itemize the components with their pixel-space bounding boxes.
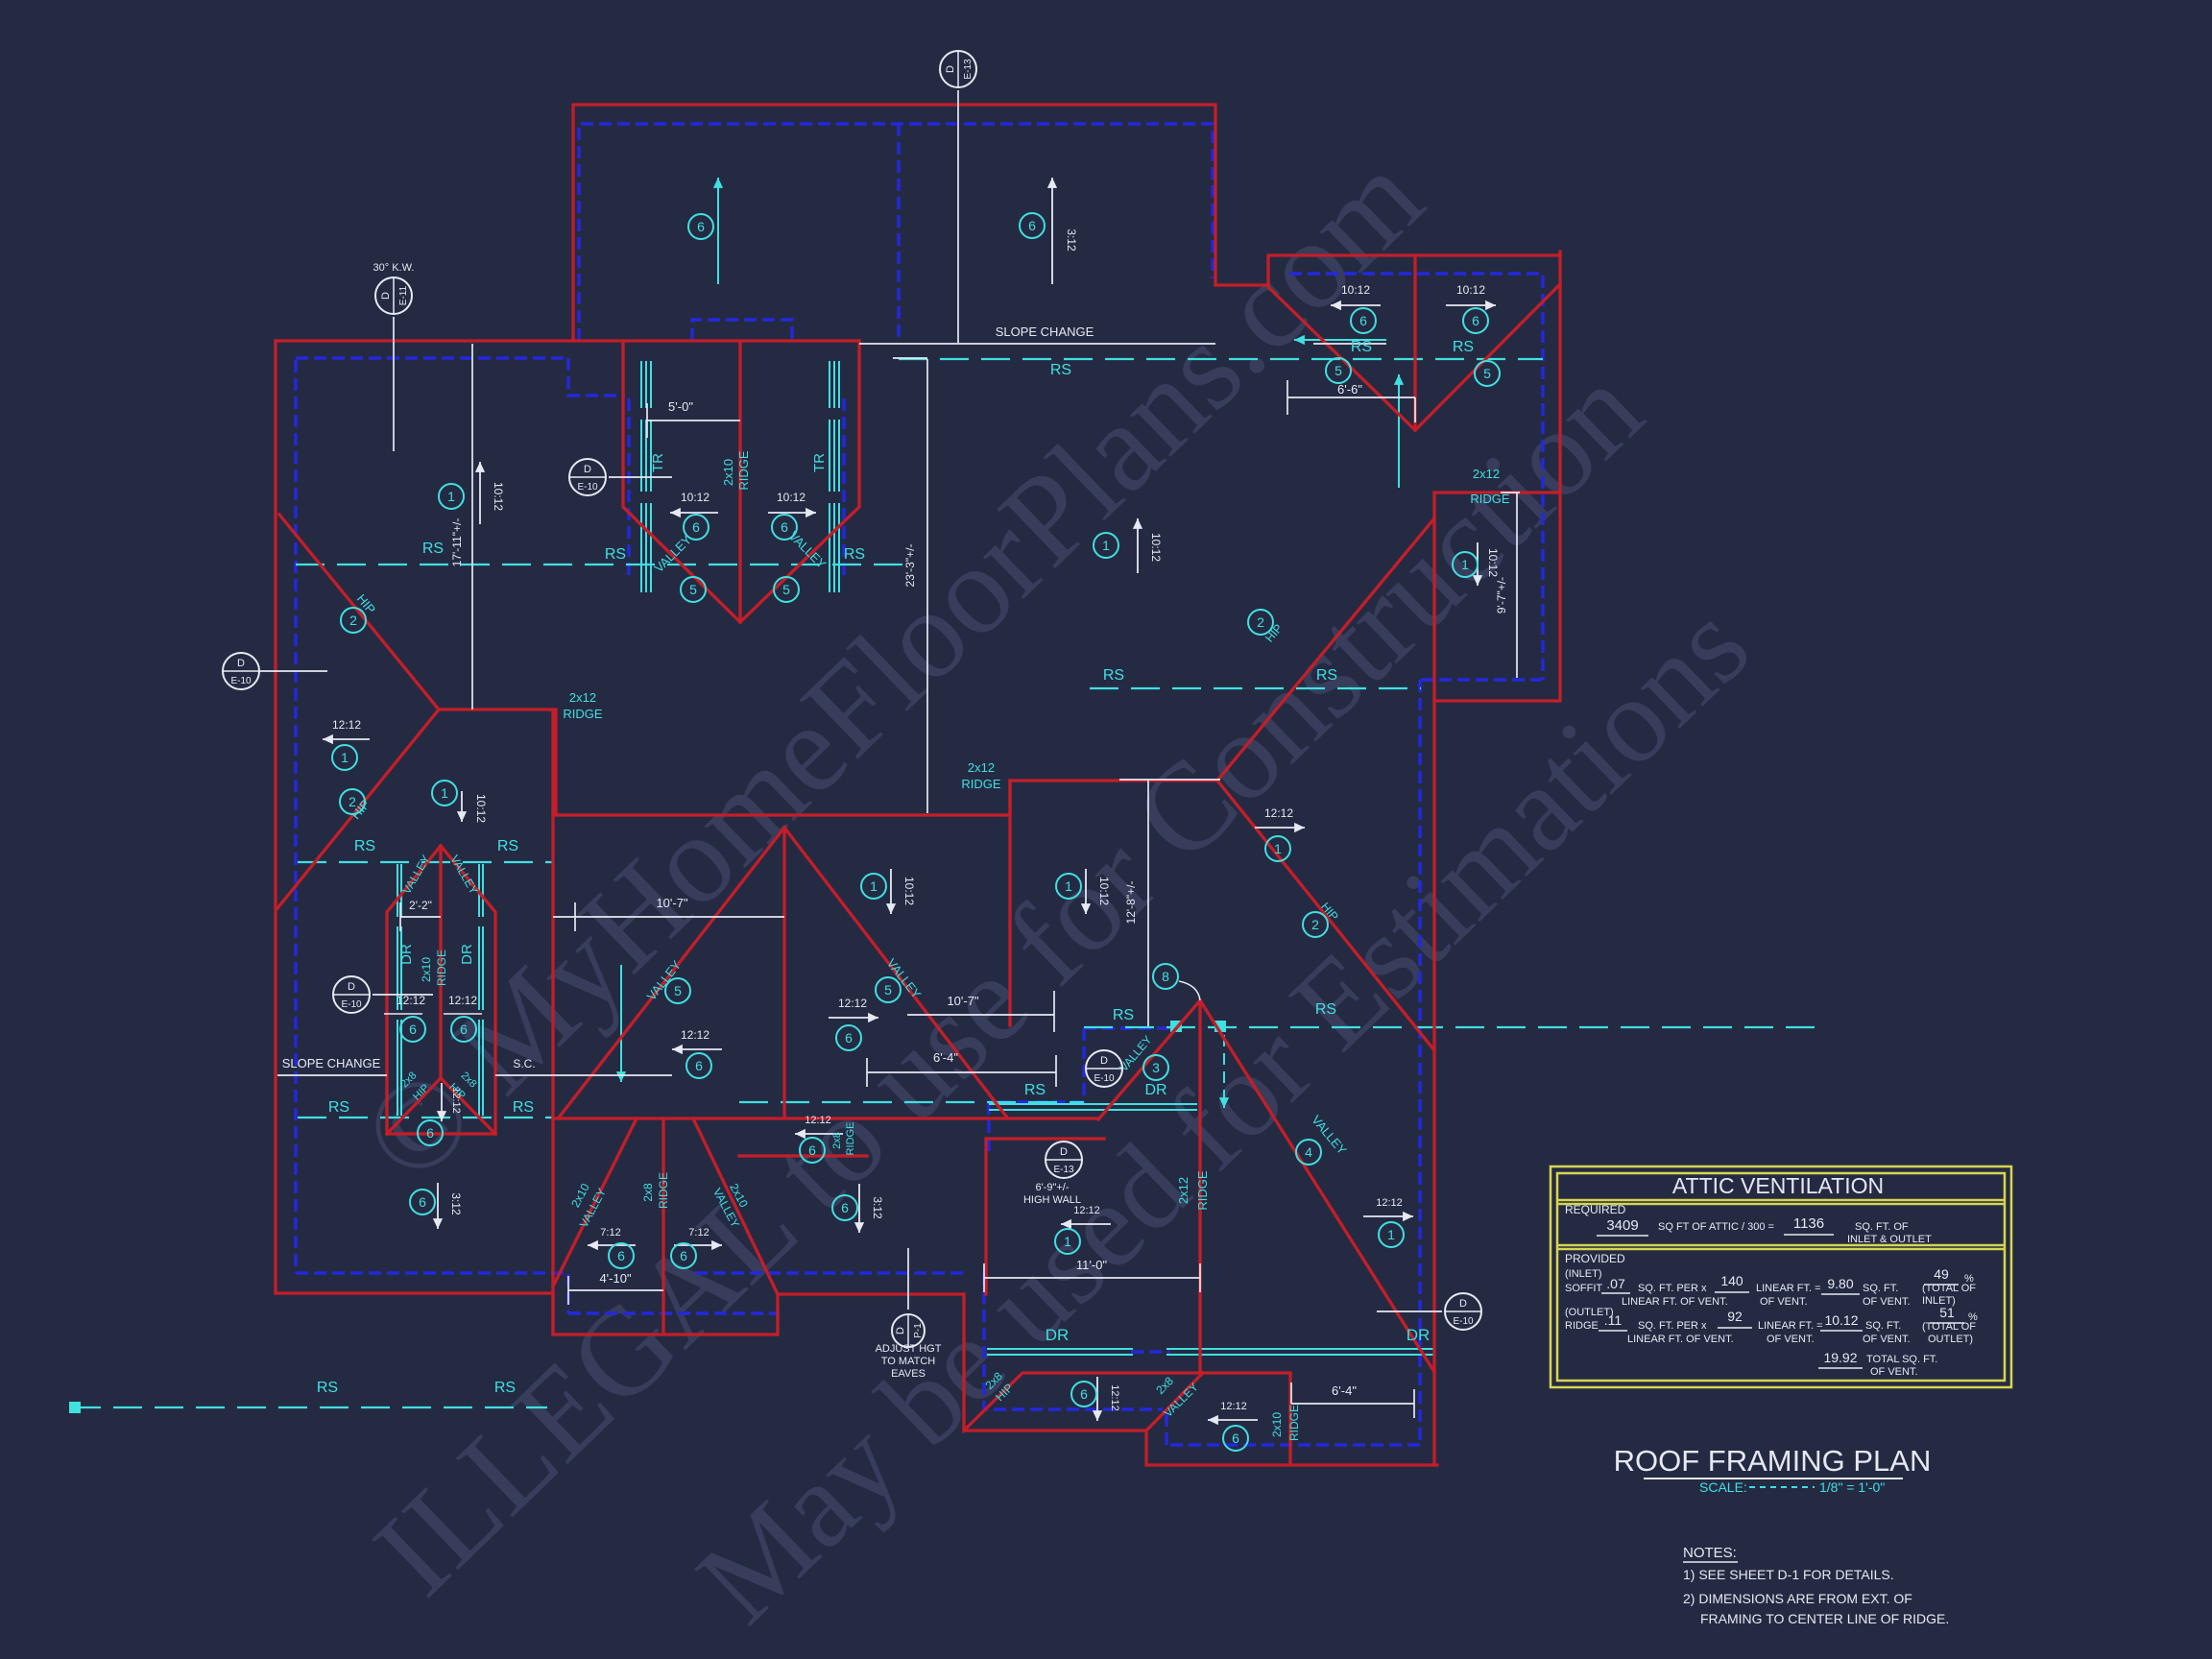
svg-text:LINEAR FT. OF VENT.: LINEAR FT. OF VENT. [1622,1296,1728,1308]
roof mid vertical [1008,781,1011,1025]
svg-text:OUTLET): OUTLET) [1928,1334,1973,1345]
svg-text:(INLET): (INLET) [1565,1268,1602,1280]
svg-text:.11: .11 [1604,1312,1623,1328]
svg-text:2) DIMENSIONS ARE FROM EXT. O: 2) DIMENSIONS ARE FROM EXT. OF [1683,1591,1912,1606]
roof center block right edge [551,709,554,1334]
svg-text:RIDGE: RIDGE [1470,492,1510,506]
svg-text:TO MATCH: TO MATCH [881,1356,935,1367]
wall right rect [1131,680,1542,1352]
svg-text:6: 6 [841,1200,849,1215]
label circle 6 [451,1017,476,1042]
svg-text:1: 1 [1461,557,1469,572]
roof high wall [986,1139,1104,1294]
svg-text:RIDGE: RIDGE [1287,1405,1301,1441]
svg-text:4: 4 [1305,1144,1312,1160]
svg-text:RS: RS [1315,1001,1336,1018]
roof trapezoid ridge [661,1118,664,1334]
svg-text:10:12: 10:12 [1486,548,1500,577]
roof center triangle [559,828,1007,1118]
svg-text:10:12: 10:12 [1456,283,1485,297]
svg-text:3:12: 3:12 [871,1196,884,1219]
label circle 5 [876,977,901,1002]
slope change line left [277,1074,387,1076]
svg-text:5: 5 [689,582,697,597]
svg-text:1: 1 [1064,1234,1071,1249]
label circle 5 [1326,358,1351,383]
label circle 2 [1303,912,1328,937]
roof left ridge 2x12 [439,709,556,815]
roof step bottom-left [553,1293,1290,1431]
svg-text:RS: RS [513,1099,534,1116]
svg-text:10:12: 10:12 [474,794,488,823]
roof top-right wing valleys [1269,284,1560,430]
cyan arrow top-right wing up [1398,374,1400,488]
label circle 6 [1463,308,1488,333]
detail marker D/E-13 [1046,1142,1082,1178]
svg-text:19.92: 19.92 [1823,1350,1857,1365]
svg-text:12:12: 12:12 [1264,806,1293,820]
svg-text:6: 6 [1232,1431,1239,1446]
watermark line 1 [334,126,1774,1648]
roof ridge strip [739,1154,867,1157]
svg-text:10.12: 10.12 [1824,1312,1858,1328]
svg-text:5'-0": 5'-0" [668,399,693,414]
svg-text:RS: RS [1024,1082,1046,1098]
cyan arrow top-left rect [717,178,719,284]
svg-text:SOFFIT: SOFFIT [1565,1283,1602,1294]
svg-text:.07: .07 [1606,1276,1625,1291]
roof bottom tower outline [387,846,495,1134]
label circle 6 [684,515,709,540]
svg-text:11'-0": 11'-0" [1076,1258,1108,1272]
svg-text:D: D [1060,1146,1068,1158]
pitch arrow mid-right 10:12 up [1137,518,1139,573]
dim 10-7 B [907,991,1054,1032]
svg-text:ROOF FRAMING PLAN: ROOF FRAMING PLAN [1614,1444,1932,1478]
RS line left lower [298,1117,552,1118]
svg-text:1) SEE SHEET D-1 FOR DETAILS.: 1) SEE SHEET D-1 FOR DETAILS. [1683,1567,1894,1582]
svg-text:23'-3"+/-: 23'-3"+/- [903,544,917,588]
label circle 4 [1296,1140,1321,1165]
svg-text:3:12: 3:12 [1065,228,1078,252]
svg-text:10:12: 10:12 [492,482,505,511]
svg-text:TR: TR [811,453,828,472]
pitch arrow right rect 10:12 down [1477,542,1479,586]
svg-text:ATTIC VENTILATION: ATTIC VENTILATION [1672,1173,1884,1198]
svg-text:SCALE:: SCALE: [1699,1479,1747,1495]
svg-text:OF VENT.: OF VENT. [1863,1296,1911,1308]
svg-text:D: D [1100,1055,1108,1067]
cyan node square RS bottom-left [69,1402,81,1413]
roof center base line [553,1117,1098,1119]
label circle 6 [832,1195,857,1220]
slope change white right of cyan arrow [1313,343,1386,345]
pitch arrow center 3:12 down [858,1184,860,1233]
svg-text:12:12: 12:12 [397,994,425,1007]
svg-text:OF VENT.: OF VENT. [1760,1296,1808,1308]
detail marker D/E-10 [569,459,606,495]
svg-text:RIDGE: RIDGE [736,450,751,491]
svg-text:3409: 3409 [1606,1217,1638,1234]
svg-text:E-11: E-11 [398,285,409,305]
RS line mid-right [1090,687,1421,689]
label circle 5 [665,978,690,1003]
svg-text:2x8: 2x8 [641,1183,655,1202]
svg-text:RIDGE: RIDGE [961,777,1001,791]
leader D E-10 midleft [373,994,433,996]
label circle 1 [1056,874,1081,899]
svg-text:SQ. FT. OF: SQ. FT. OF [1855,1221,1909,1233]
roof trapezoid right valley [693,1118,778,1294]
svg-text:12:12: 12:12 [838,997,867,1010]
dim 12-8 vertical [1119,780,1220,1026]
svg-text:RS: RS [844,546,865,563]
svg-text:6: 6 [419,1194,426,1210]
svg-text:SQ FT OF ATTIC / 300 =: SQ FT OF ATTIC / 300 = [1658,1221,1774,1233]
svg-text:E-10: E-10 [341,999,362,1010]
label circle 1 [1094,533,1118,558]
roof left hip lower [277,709,439,908]
svg-text:140: 140 [1720,1273,1743,1288]
pitch arrow left bottom 3:12 down [437,1183,439,1229]
svg-text:2: 2 [349,794,356,809]
svg-text:OF VENT.: OF VENT. [1863,1334,1911,1345]
dim 5-0 tower [647,403,740,438]
svg-text:1: 1 [1274,841,1282,856]
label circle 6 [1020,213,1045,238]
svg-text:P-1: P-1 [913,1323,924,1338]
detail marker D/E-10 [1086,1050,1122,1087]
label circle 1 [1265,836,1290,861]
dim 4-10 [568,1276,663,1305]
wall tower verticals [629,398,844,576]
roof left wing bottom edge [276,1291,553,1294]
svg-text:12:12: 12:12 [1220,1401,1247,1412]
svg-text:10:12: 10:12 [902,877,916,905]
label circle 6 [410,1190,435,1214]
svg-text:SQ. FT. PER x: SQ. FT. PER x [1638,1320,1707,1332]
label circle 6 [836,1025,861,1050]
svg-text:OF VENT.: OF VENT. [1767,1334,1815,1345]
label circle 6 [1223,1426,1248,1451]
slope change line right [495,1074,672,1076]
label circle 1 [1453,552,1478,577]
label circle 1 [439,484,464,509]
svg-text:12'-8"+/-: 12'-8"+/- [1124,881,1138,925]
label circle 1 [1379,1222,1404,1247]
label circle 1 [432,781,457,805]
cyan node square 1 [1170,1021,1182,1032]
wall bump above tower [692,320,792,341]
svg-text:1136: 1136 [1793,1215,1824,1232]
svg-text:6: 6 [680,1248,687,1263]
svg-text:5: 5 [782,582,790,597]
label circle 6 [772,515,797,540]
roof right edge [1432,493,1435,1465]
svg-text:TOTAL SQ. FT.: TOTAL SQ. FT. [1866,1354,1937,1365]
svg-text:RS: RS [1351,339,1372,355]
svg-text:12:12: 12:12 [448,994,477,1007]
svg-text:RS: RS [497,838,518,854]
svg-text:OF VENT.: OF VENT. [1870,1366,1918,1378]
detail marker D/E-10 [223,653,259,689]
roof bottom tower ridge [439,846,442,1078]
DR double lines bottom tower [397,864,398,1116]
svg-text:LINEAR FT. =: LINEAR FT. = [1758,1320,1823,1332]
detail marker D/P-1 [892,1314,925,1347]
svg-text:12:12: 12:12 [681,1028,709,1042]
svg-text:9'-7"+/-: 9'-7"+/- [1495,577,1508,613]
svg-text:10:12: 10:12 [777,491,805,504]
svg-text:TR: TR [650,453,666,472]
leader D E-10 tower [609,476,672,478]
svg-text:6'-4": 6'-4" [933,1050,958,1065]
svg-text:10:12: 10:12 [681,491,709,504]
svg-text:2x8: 2x8 [831,1132,843,1149]
svg-text:RS: RS [1316,667,1337,684]
label circle 8 [1153,964,1178,989]
svg-text:30° K.W.: 30° K.W. [373,262,415,274]
svg-text:6: 6 [1472,313,1479,328]
detail marker D/E-10 [1445,1293,1481,1330]
svg-text:INLET & OUTLET: INLET & OUTLET [1847,1234,1932,1245]
label circle 5 [1475,361,1500,386]
roof right mid rect [1434,252,1560,701]
dim 9-7 vertical [1501,493,1520,678]
svg-text:RS: RS [1113,1007,1134,1023]
svg-text:1: 1 [1387,1227,1395,1242]
pitch arrow left wing 12:12 left [323,738,370,740]
label circle 5 [681,577,706,602]
svg-text:6: 6 [617,1248,625,1263]
svg-text:2x10: 2x10 [1270,1412,1284,1437]
roof center-right gable ridge [1198,1000,1201,1373]
DR double line bottom [987,1349,1433,1355]
label circle 6 [1351,308,1376,333]
svg-text:2: 2 [349,613,357,628]
detail marker D/E-10 [333,976,370,1013]
svg-text:SQ. FT. PER x: SQ. FT. PER x [1638,1283,1707,1294]
dim 23-3 vertical [893,358,927,813]
svg-text:6'-6": 6'-6" [1337,382,1362,397]
leader D E-13 top [957,90,959,343]
svg-text:E-10: E-10 [230,676,252,686]
wall partition top rect [897,124,900,338]
dim 10-7 A [553,902,784,931]
svg-text:2x10: 2x10 [420,957,433,982]
dim 2-2 bottom tower [400,902,441,931]
svg-text:SLOPE CHANGE: SLOPE CHANGE [996,325,1094,339]
cyan node square 2 [1214,1021,1226,1032]
TR triple lines right [829,361,830,592]
svg-text:6: 6 [845,1030,853,1046]
dim 6-6 top-right [1287,380,1415,422]
svg-text:10:12: 10:12 [1097,877,1111,905]
svg-text:RIDGE: RIDGE [1195,1170,1210,1211]
roof left wing left edge [274,341,276,1293]
label circle 6 [686,1053,711,1078]
label circle 6 [800,1138,825,1163]
svg-text:5: 5 [1334,363,1342,378]
svg-text:RS: RS [317,1380,338,1396]
svg-text:PROVIDED: PROVIDED [1565,1252,1625,1265]
svg-text:SLOPE CHANGE: SLOPE CHANGE [282,1056,381,1070]
leader D E-10 left [258,670,327,672]
svg-text:D: D [237,658,245,669]
label circle 6 [609,1243,634,1268]
svg-text:10'-7": 10'-7" [947,994,979,1008]
svg-text:RS: RS [605,546,626,563]
leader from 8 [1179,981,1200,1000]
pitch arrow top rect right 3:12 [1051,178,1053,284]
svg-text:RS: RS [422,541,444,557]
wall bottom trapezoid [568,1311,778,1314]
RS line upper [899,358,1543,360]
svg-text:6: 6 [460,1022,468,1037]
svg-text:SQ. FT.: SQ. FT. [1865,1320,1901,1332]
svg-text:6'-9"+/-: 6'-9"+/- [1035,1182,1069,1193]
svg-text:2'-2": 2'-2" [409,899,432,912]
svg-text:6: 6 [1028,218,1036,233]
label circle 6 [688,214,713,239]
svg-text:D: D [584,464,591,475]
pitch arrow bottom-right 12:12 down [1096,1377,1098,1421]
svg-text:D: D [895,1327,906,1334]
attic ventilation table [1551,1166,2011,1387]
roof left wing top edge [276,339,859,342]
label circle 6 [671,1243,696,1268]
svg-text:RS: RS [494,1380,516,1396]
roof bottom-right wing [965,1373,1437,1465]
svg-text:SQ. FT.: SQ. FT. [1863,1283,1898,1294]
label circle 6 [1071,1382,1096,1407]
svg-text:4'-10": 4'-10" [599,1271,632,1286]
svg-text:8: 8 [1162,969,1169,984]
RS line bottom-left outside [72,1407,547,1408]
svg-text:E-10: E-10 [1453,1316,1474,1327]
svg-text:S.C.: S.C. [513,1057,535,1070]
svg-text:10:12: 10:12 [1149,533,1163,562]
svg-text:5: 5 [884,982,892,998]
dim 6-4 bottom right [1291,1382,1414,1418]
roof center triangle ridge [782,828,785,1118]
svg-text:1: 1 [341,750,349,765]
DR double line center [989,1104,1197,1110]
roof tower ridge [738,341,741,622]
RS line left-center [296,564,907,565]
label circle 6 [418,1120,443,1145]
dim 6-4 mid [867,1055,1056,1087]
svg-text:DR: DR [459,944,475,965]
svg-text:6: 6 [695,1058,703,1073]
svg-text:2x12: 2x12 [1473,467,1500,481]
svg-text:LINEAR FT. OF VENT.: LINEAR FT. OF VENT. [1627,1334,1734,1345]
svg-text:7:12: 7:12 [600,1227,620,1238]
label circle 5 [774,577,799,602]
wall top-right wing [1289,274,1543,680]
svg-text:RIDGE: RIDGE [435,950,448,986]
svg-text:DR: DR [398,944,415,965]
svg-text:6: 6 [409,1022,417,1037]
svg-text:1: 1 [870,878,878,894]
roof hip Y up [1217,518,1434,781]
svg-text:DR: DR [1046,1326,1070,1344]
svg-text:2x12: 2x12 [968,760,995,775]
svg-text:5: 5 [1483,366,1491,381]
svg-text:LINEAR FT. =: LINEAR FT. = [1756,1283,1821,1294]
svg-text:2: 2 [1257,614,1264,630]
roof trapezoid left valley [553,1118,637,1286]
roof center-right gable valleys [1098,1000,1434,1372]
svg-text:7:12: 7:12 [688,1227,709,1238]
svg-text:RIDGE: RIDGE [845,1122,856,1156]
svg-text:2x12: 2x12 [569,690,596,705]
svg-text:1/8" = 1'-0": 1/8" = 1'-0" [1819,1479,1885,1495]
dim 11-0 [984,1263,1200,1292]
roof left hip upper [279,515,439,709]
svg-text:(TOTAL OF: (TOTAL OF [1922,1283,1976,1294]
RS line right long [1084,1026,1826,1028]
svg-text:6: 6 [1359,313,1367,328]
svg-text:5: 5 [674,983,682,998]
svg-text:RIDGE: RIDGE [563,707,603,721]
cyan dashed arrow mid down [1223,1035,1225,1090]
roof top-right wing [1268,255,1560,285]
svg-text:2: 2 [1311,917,1319,932]
TR triple lines left [640,361,642,592]
RS line center [739,1101,1084,1103]
svg-text:1: 1 [441,785,448,801]
svg-text:HIGH WALL: HIGH WALL [1023,1194,1081,1206]
svg-text:2x12: 2x12 [1176,1177,1190,1204]
svg-text:9.80: 9.80 [1827,1276,1853,1291]
svg-text:RIDGE: RIDGE [1565,1320,1599,1332]
leader D P-1 [907,1248,909,1310]
pitch arrow tower-bottom 10:12 down [461,791,463,822]
slope change line top [859,343,1215,345]
svg-text:12:12: 12:12 [1073,1205,1100,1216]
svg-text:E-13: E-13 [1053,1165,1074,1175]
svg-text:49: 49 [1934,1266,1949,1282]
svg-text:E-10: E-10 [577,482,598,493]
svg-text:NOTES:: NOTES: [1683,1545,1737,1561]
svg-text:6: 6 [781,519,788,535]
svg-text:6'-4": 6'-4" [1332,1383,1357,1398]
label circle 6 [400,1017,425,1042]
svg-text:D: D [1459,1298,1467,1310]
svg-text:D: D [945,65,956,73]
label circle 3 [1143,1055,1168,1080]
svg-text:RIDGE: RIDGE [657,1172,670,1209]
svg-text:RS: RS [1453,339,1474,355]
svg-text:(TOTAL OF: (TOTAL OF [1922,1321,1976,1333]
svg-text:DR: DR [1144,1082,1166,1098]
svg-text:1: 1 [1102,538,1110,553]
svg-text:6: 6 [692,519,700,535]
label circle 1 [861,874,886,899]
leader D E-11 [393,317,395,451]
svg-text:6: 6 [697,219,705,234]
svg-text:DR: DR [1407,1326,1431,1344]
label circle 2 [341,608,366,633]
svg-text:RS: RS [354,838,375,854]
svg-text:3: 3 [1152,1060,1160,1075]
svg-text:12:12: 12:12 [1376,1197,1403,1209]
roof tower top [623,341,859,622]
label circle 1 [1055,1229,1080,1254]
svg-text:D: D [380,292,392,300]
svg-text:92: 92 [1727,1309,1743,1324]
